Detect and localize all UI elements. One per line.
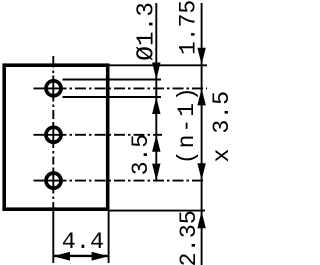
4.4 extension right [108,211,110,263]
svg-text:Ø1.3: Ø1.3 [134,2,161,61]
arrow 4.4 right [92,252,109,261]
arrow 3.5 top [152,135,160,152]
4.4 dimension line [53,255,109,257]
arrow 3.5 bottom [152,164,160,181]
4.4 extension left [52,210,54,264]
svg-text:2.35: 2.35 [176,210,203,265]
extension line hole1 top edge [63,79,162,81]
svg-text:1.75: 1.75 [175,0,201,55]
svg-text:(n-1): (n-1) [174,85,200,164]
center line hole 1 [34,87,208,89]
arrow dia bottom [152,97,160,114]
extension line hole1 bottom edge [63,96,162,98]
vertical center line through holes [52,56,54,210]
svg-text:4.4: 4.4 [62,229,104,256]
arrow 1.75 bottom [197,88,205,105]
hole 3 [46,173,61,188]
hole 1 [46,81,61,96]
arrow dia top [152,63,160,80]
center line hole 2 [34,134,163,136]
housing body outline [4,65,108,209]
extension line body top [108,64,207,66]
dimension line A [155,3,157,181]
svg-text:x 3.5: x 3.5 [209,90,231,162]
arrow 4.4 left [53,252,70,261]
arrow 1.75 top [197,48,205,65]
center line hole 3 [34,180,206,182]
arrow n-1 bottom [197,163,205,180]
hole 2 [46,127,61,142]
dimension line B [201,3,203,265]
arrow 2.35 bottom [197,211,205,228]
svg-text:3.5: 3.5 [128,134,154,175]
extension line body bottom [110,210,206,212]
